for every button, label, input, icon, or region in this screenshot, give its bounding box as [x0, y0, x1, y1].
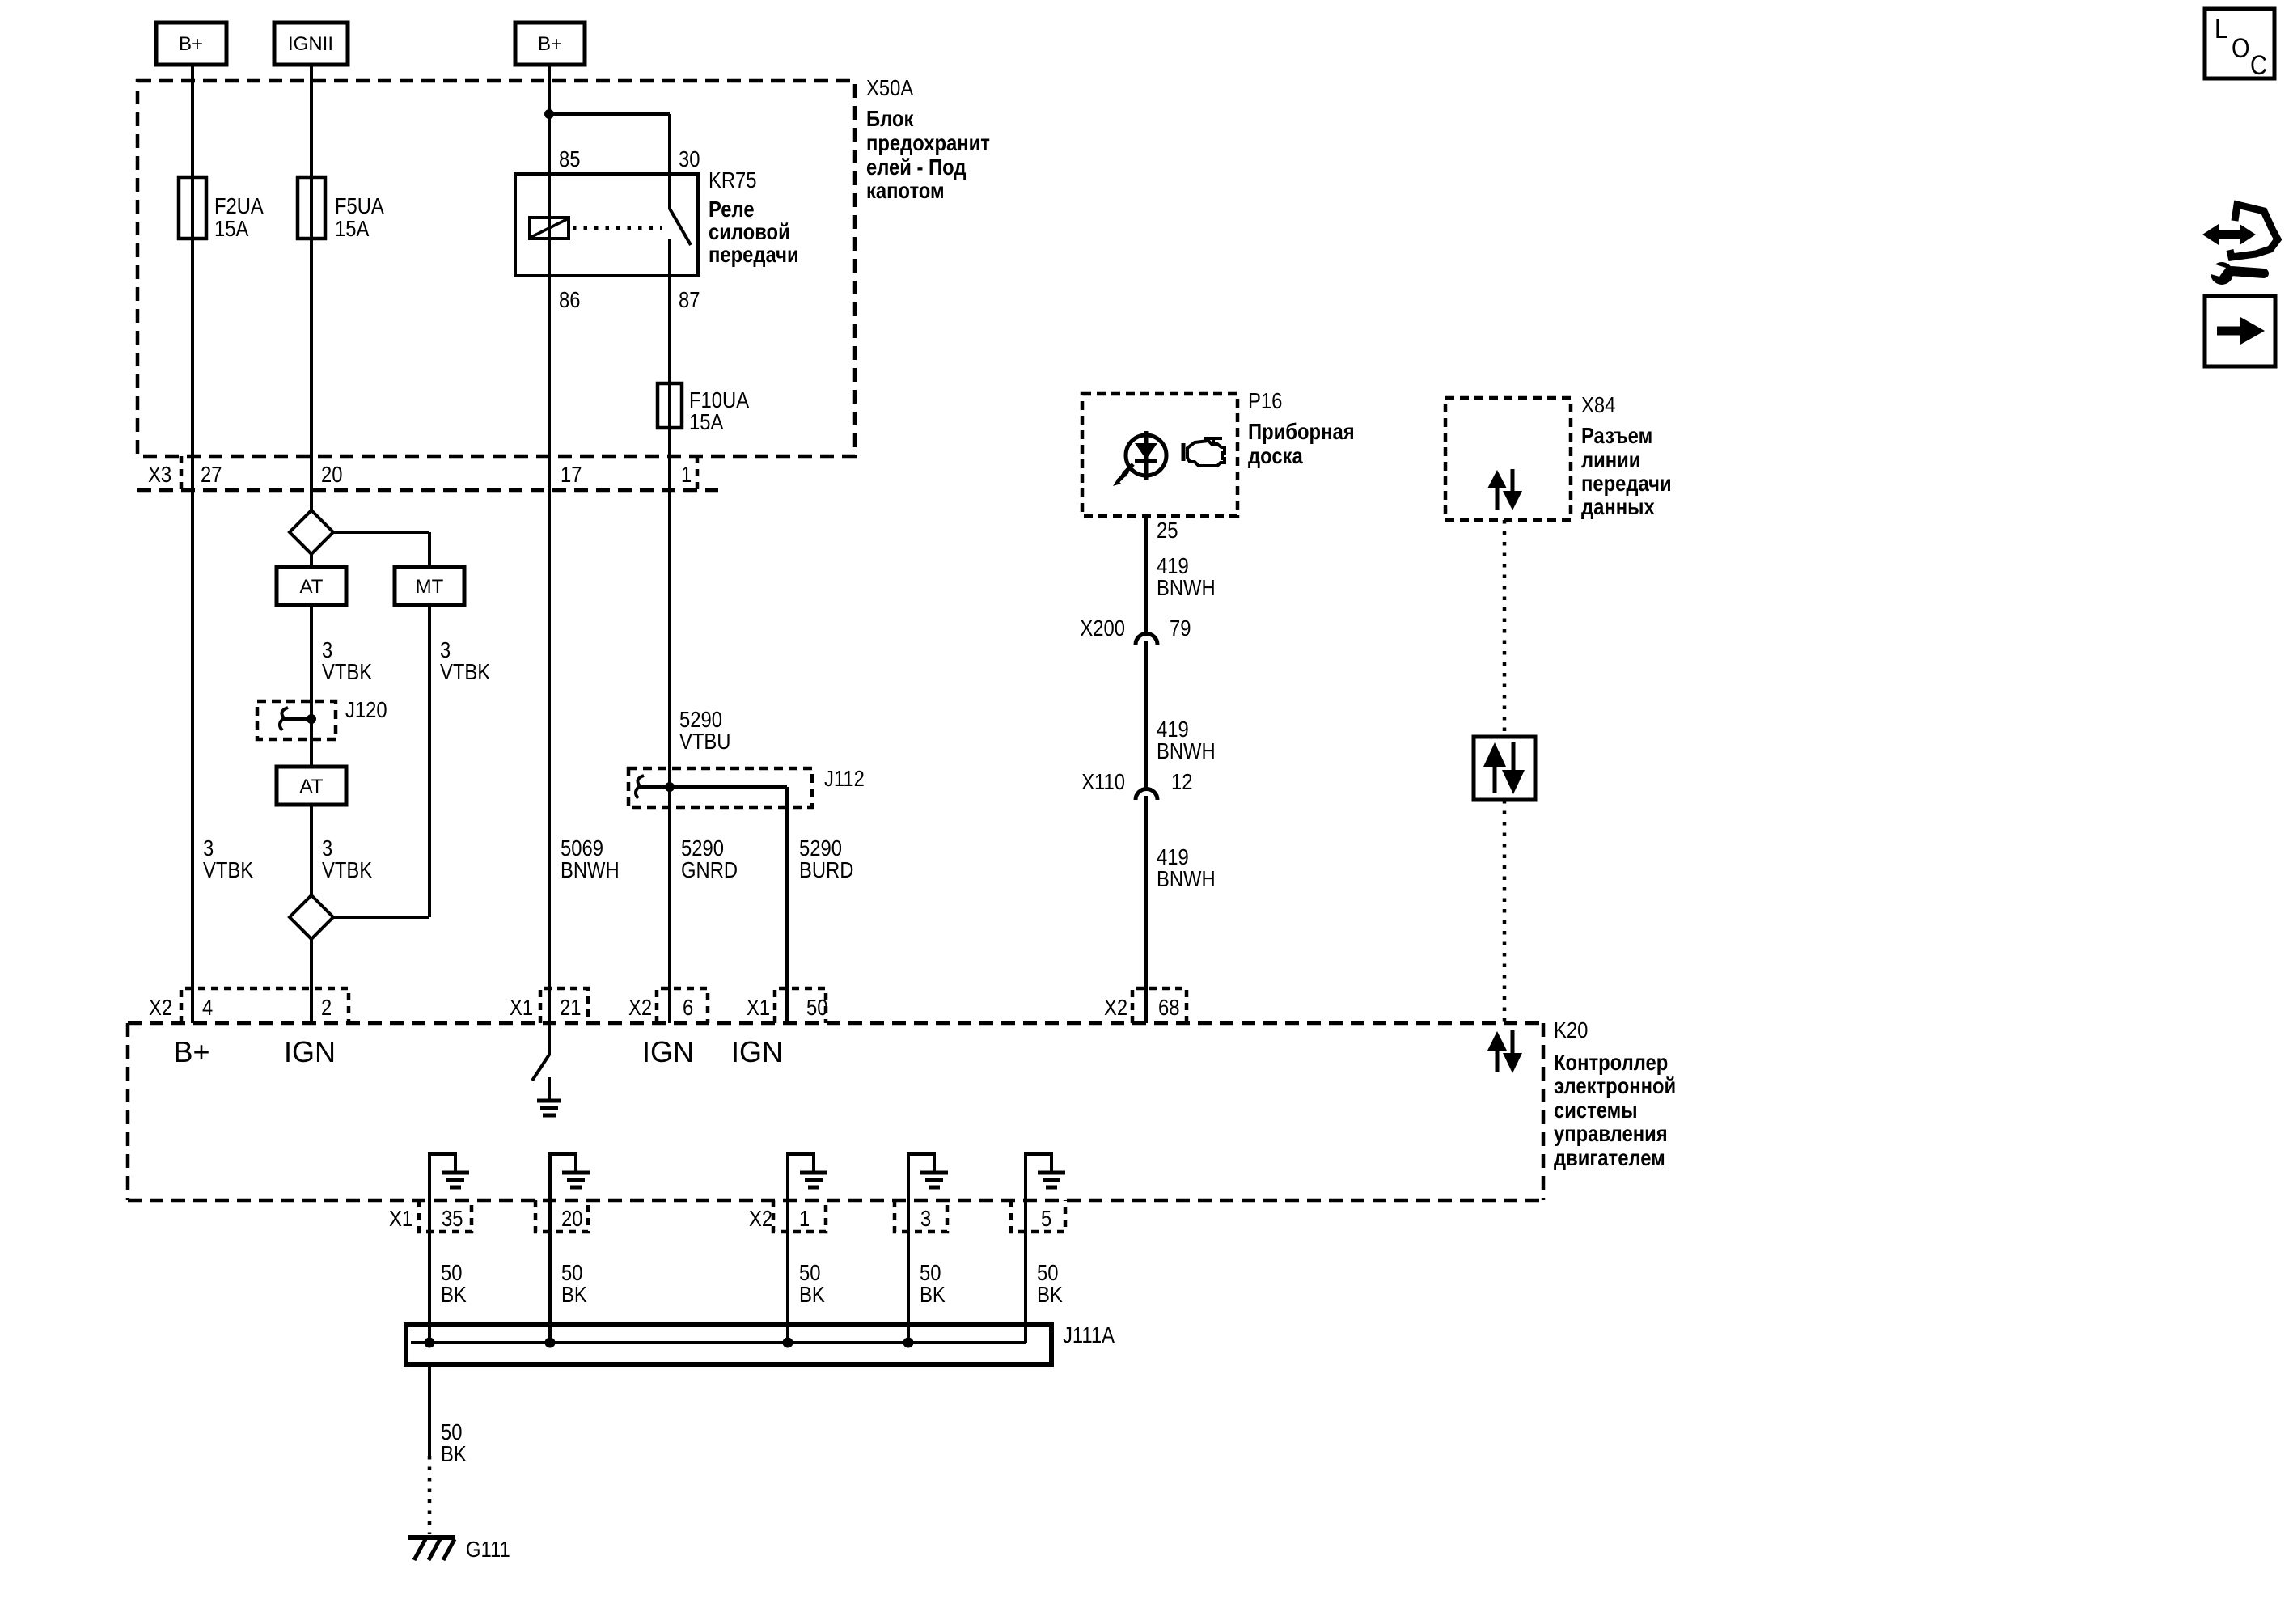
- junction node at relay feed: [544, 109, 554, 119]
- svg-text:BK: BK: [920, 1282, 946, 1307]
- wire label 50 BK (G111): [441, 1419, 467, 1466]
- svg-text:BK: BK: [1037, 1282, 1063, 1307]
- svg-text:BK: BK: [441, 1282, 467, 1307]
- wire label 419 BNWH (upper): [1157, 553, 1216, 600]
- svg-text:B+: B+: [173, 1035, 209, 1068]
- svg-text:K20: K20: [1554, 1017, 1588, 1042]
- ECM K20 dashed box: [128, 1023, 1543, 1200]
- ground symbol under switch: [537, 1101, 561, 1115]
- wire label 5290 VTBU: [679, 707, 731, 754]
- svg-text:68: 68: [1158, 995, 1180, 1020]
- option box AT (lower): [277, 767, 346, 805]
- svg-text:17: 17: [561, 462, 582, 487]
- inline connector X200 pin 79: [1080, 615, 1191, 645]
- svg-text:IGN: IGN: [284, 1035, 336, 1068]
- instrument panel P16 dashed box: [1082, 394, 1237, 516]
- power feed box B+ (left): [156, 23, 226, 65]
- svg-text:87: 87: [679, 287, 700, 312]
- wire branch to MT: [333, 532, 429, 567]
- wire W3 from B+ right down: [548, 65, 551, 1055]
- svg-text:BNWH: BNWH: [1157, 575, 1216, 600]
- svg-text:доска: доска: [1248, 443, 1303, 468]
- power feed box B+ (right): [515, 23, 585, 65]
- svg-text:20: 20: [321, 462, 343, 487]
- wire label 5290 BURD: [799, 835, 853, 882]
- relay actuation dotted line: [573, 226, 662, 230]
- svg-text:4: 4: [202, 995, 213, 1020]
- svg-text:капотом: капотом: [866, 178, 945, 203]
- svg-text:G111: G111: [466, 1537, 510, 1562]
- svg-text:J111A: J111A: [1063, 1322, 1115, 1347]
- engine MIL icon: [1183, 438, 1225, 466]
- svg-text:Разъем: Разъем: [1581, 423, 1652, 448]
- K20 bottom pin labels: [389, 1206, 1051, 1231]
- svg-text:BK: BK: [441, 1441, 467, 1466]
- svg-text:25: 25: [1157, 518, 1178, 543]
- svg-text:30: 30: [679, 146, 700, 171]
- K20 top pin labels: [149, 995, 1180, 1020]
- svg-text:L: L: [2215, 14, 2227, 44]
- svg-text:VTBK: VTBK: [203, 857, 253, 882]
- svg-text:двигателем: двигателем: [1554, 1145, 1665, 1170]
- svg-text:X2: X2: [149, 995, 172, 1020]
- svg-text:6: 6: [683, 995, 693, 1020]
- wire label 5069 BNWH: [561, 835, 620, 882]
- switch inside K20 on wire 21: [532, 1055, 549, 1100]
- svg-text:BNWH: BNWH: [561, 857, 620, 882]
- svg-text:21: 21: [560, 995, 582, 1020]
- data arrows icon in X84: [1487, 469, 1522, 510]
- wire label 3 VTBK (AT upper): [322, 637, 372, 684]
- splice pack J111A: [406, 1322, 1115, 1364]
- svg-text:AT: AT: [300, 776, 324, 797]
- power feed box IGNII: [274, 23, 348, 65]
- svg-text:J112: J112: [824, 766, 865, 791]
- wire label 419 BNWH (lower): [1157, 844, 1216, 891]
- ground wire 4 (pin 3) with internal ground: [908, 1152, 948, 1343]
- connector X3 pin strip: [137, 456, 718, 490]
- svg-text:20: 20: [561, 1206, 583, 1231]
- svg-text:предохранит: предохранит: [866, 130, 990, 155]
- fuse F2UA: [179, 177, 264, 241]
- svg-text:B+: B+: [538, 33, 562, 55]
- service info icon (double arrow and wrench): [2202, 205, 2278, 285]
- svg-text:1: 1: [681, 462, 692, 487]
- svg-text:5: 5: [1041, 1206, 1051, 1231]
- svg-text:F2UA: F2UA: [214, 193, 264, 218]
- splice diamond bottom: [290, 895, 429, 939]
- svg-text:X200: X200: [1080, 615, 1125, 641]
- option box AT (upper): [277, 567, 346, 605]
- svg-text:2: 2: [321, 995, 332, 1020]
- svg-text:Блок: Блок: [866, 106, 914, 131]
- svg-text:F5UA: F5UA: [335, 193, 384, 218]
- svg-text:BNWH: BNWH: [1157, 866, 1216, 891]
- relay pin labels: [559, 146, 700, 312]
- data link connector X84 dashed box: [1445, 398, 1571, 520]
- svg-text:системы: системы: [1554, 1097, 1638, 1123]
- svg-text:электронной: электронной: [1554, 1073, 1676, 1098]
- svg-text:86: 86: [559, 287, 581, 312]
- LOC reference box: [2205, 9, 2274, 81]
- fuse F10UA: [658, 383, 749, 434]
- indicator lamp icon: [1113, 431, 1166, 486]
- svg-text:35: 35: [442, 1206, 463, 1231]
- wire label 3 VTBK (W2 lower): [322, 835, 372, 882]
- svg-text:MT: MT: [416, 576, 444, 598]
- svg-text:KR75: KR75: [709, 167, 757, 192]
- fuse block X50A dashed box: [137, 81, 855, 456]
- svg-text:GNRD: GNRD: [681, 857, 738, 882]
- wire label 419 BNWH (middle): [1157, 717, 1216, 763]
- svg-text:12: 12: [1171, 769, 1193, 794]
- wire labels 50 BK (five): [441, 1260, 1063, 1307]
- svg-text:3: 3: [920, 1206, 931, 1231]
- svg-text:VTBK: VTBK: [322, 659, 372, 684]
- wire branch to relay pin 30: [549, 114, 670, 209]
- svg-text:X2: X2: [749, 1206, 772, 1231]
- label KR75: [709, 167, 799, 267]
- label X50A: [866, 75, 990, 203]
- K20 bottom pin boxes: [419, 1200, 1065, 1232]
- label P16: [1248, 388, 1355, 468]
- svg-text:1: 1: [799, 1206, 810, 1231]
- svg-text:15A: 15A: [214, 216, 249, 241]
- wire W1 from B+ left down to K20: [191, 65, 194, 1023]
- inline connector X110 pin 12: [1081, 769, 1192, 800]
- svg-text:BNWH: BNWH: [1157, 738, 1216, 763]
- svg-text:линии: линии: [1581, 447, 1640, 472]
- svg-text:15A: 15A: [689, 409, 724, 434]
- K20 top pin boxes: [181, 988, 1187, 1023]
- svg-text:VTBK: VTBK: [440, 659, 490, 684]
- wire MT branch down: [428, 605, 431, 917]
- svg-text:BURD: BURD: [799, 857, 853, 882]
- svg-text:79: 79: [1170, 615, 1191, 641]
- relay switch blade: [670, 209, 691, 245]
- ground wire 1 (pin 35) with internal ground: [429, 1152, 469, 1343]
- svg-text:данных: данных: [1581, 494, 1655, 519]
- svg-text:X1: X1: [389, 1206, 412, 1231]
- svg-text:управления: управления: [1554, 1121, 1668, 1146]
- wire label 3 VTBK (left W1): [203, 835, 253, 882]
- svg-text:силовой: силовой: [709, 219, 790, 244]
- wire label 5290 GNRD: [681, 835, 738, 882]
- wire W4 from P16 to K20 pin 68: [1144, 516, 1148, 1023]
- svg-text:X50A: X50A: [866, 75, 913, 100]
- ground wire 3 (pin 1) with internal ground: [788, 1152, 827, 1343]
- svg-text:X2: X2: [1104, 995, 1127, 1020]
- svg-text:IGN: IGN: [731, 1035, 783, 1068]
- svg-text:VTBK: VTBK: [322, 857, 372, 882]
- label K20: [1554, 1017, 1676, 1170]
- data arrows icon in K20: [1487, 1030, 1522, 1073]
- svg-text:BK: BK: [799, 1282, 825, 1307]
- svg-text:X1: X1: [510, 995, 533, 1020]
- svg-text:P16: P16: [1248, 388, 1282, 413]
- svg-text:J120: J120: [345, 697, 387, 722]
- splice diamond top: [290, 510, 333, 554]
- svg-text:O: O: [2232, 33, 2250, 64]
- svg-text:VTBU: VTBU: [679, 729, 731, 754]
- wire from relay pin 87 down through fuse and J112 to K20: [668, 239, 671, 1023]
- svg-text:X110: X110: [1081, 769, 1125, 794]
- chassis ground G111: [408, 1537, 510, 1562]
- ground wire 5 (pin 5) with internal ground: [1026, 1152, 1065, 1343]
- svg-text:B+: B+: [179, 33, 203, 55]
- svg-text:Реле: Реле: [709, 197, 755, 222]
- svg-text:15A: 15A: [335, 216, 370, 241]
- svg-text:передачи: передачи: [1581, 471, 1672, 496]
- label X84: [1581, 392, 1672, 519]
- data link symbol square: [1474, 737, 1535, 800]
- wire label 3 VTBK (MT): [440, 637, 490, 684]
- svg-text:елей - Под: елей - Под: [866, 154, 967, 180]
- splice J120: [257, 697, 387, 739]
- svg-text:27: 27: [201, 462, 222, 487]
- splice J112: [628, 766, 865, 807]
- svg-text:50: 50: [806, 995, 828, 1020]
- relay coil: [530, 218, 569, 239]
- fuse F5UA: [298, 177, 384, 241]
- ground wire 2 (pin 20) with internal ground: [550, 1152, 590, 1343]
- svg-text:IGN: IGN: [642, 1035, 694, 1068]
- svg-text:AT: AT: [300, 576, 324, 598]
- forward reference arrow box: [2205, 296, 2275, 366]
- big labels B+ IGN inside K20: [173, 1035, 783, 1068]
- svg-text:Приборная: Приборная: [1248, 419, 1355, 444]
- svg-text:X2: X2: [628, 995, 652, 1020]
- wire from J112 to pin 50: [785, 787, 789, 1023]
- option box MT: [395, 567, 464, 605]
- svg-text:X1: X1: [747, 995, 770, 1020]
- dotted data wire from X84: [1503, 520, 1507, 1023]
- svg-text:X84: X84: [1581, 392, 1615, 417]
- svg-text:BK: BK: [561, 1282, 587, 1307]
- svg-text:передачи: передачи: [709, 242, 799, 267]
- wire W2 from IGNII down to K20: [310, 65, 313, 1023]
- svg-text:Контроллер: Контроллер: [1554, 1050, 1668, 1075]
- wire from J111A to G111: [428, 1364, 431, 1534]
- svg-text:X3: X3: [148, 462, 171, 487]
- svg-text:IGNII: IGNII: [288, 33, 333, 55]
- svg-text:C: C: [2250, 50, 2267, 81]
- svg-text:85: 85: [559, 146, 581, 171]
- relay KR75 box: [515, 174, 698, 276]
